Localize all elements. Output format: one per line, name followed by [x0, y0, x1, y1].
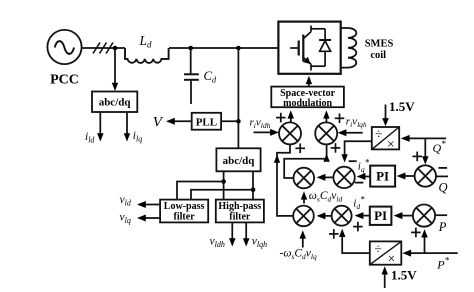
- wire PI d to SBR: [355, 212, 370, 219]
- PI controller q: [370, 166, 395, 187]
- plus sign PI d input: [353, 222, 363, 232]
- svg-text:×: ×: [388, 251, 396, 266]
- wire node A to abc/dq: [112, 48, 118, 91]
- svg-text:PI: PI: [374, 208, 387, 223]
- svg-text:coil: coil: [370, 50, 386, 61]
- plus sign Q* input: [412, 152, 422, 162]
- junction node F: [251, 187, 256, 192]
- wire abc/dq to high-pass left: [223, 171, 225, 199]
- Q input wire: [436, 175, 448, 177]
- three-phase slashes: [93, 43, 113, 54]
- svg-text:High-pass: High-pass: [218, 201, 261, 212]
- plus sign M2 top-right: [335, 114, 345, 124]
- summing junction SBL: [293, 206, 314, 227]
- svg-text:÷: ÷: [375, 127, 382, 142]
- svg-text:1.5V: 1.5V: [391, 268, 417, 283]
- abc/dq U2: [92, 92, 137, 113]
- minus omega Cd vlq input arrow: [300, 230, 307, 247]
- wire abc/dq to high-pass right: [252, 171, 254, 199]
- v_ld output arrow: [137, 201, 160, 208]
- plus sign M2 bottom input: [331, 143, 341, 153]
- svg-text:P: P: [438, 220, 447, 234]
- P* input wire: [402, 250, 457, 257]
- wire node E to low-pass: [177, 182, 224, 200]
- wire sum SML to M2 bottom: [284, 145, 330, 178]
- svg-text:abc/dq: abc/dq: [99, 96, 132, 108]
- SMES coil L2: [341, 28, 357, 68]
- V output arrow: [166, 118, 192, 125]
- wire Sq to sum SML: [317, 174, 334, 181]
- svg-text:filter: filter: [174, 212, 196, 223]
- plus sign M1 bottom input: [295, 144, 305, 154]
- 1.5V input arrow U8: [382, 105, 389, 127]
- capacitor Cd: [184, 48, 199, 104]
- PLL U3: [192, 113, 221, 130]
- svg-text:PLL: PLL: [196, 117, 217, 129]
- plus sign SBR bottom input: [329, 229, 339, 239]
- wire SQ to PI q: [397, 173, 415, 180]
- low-pass filter U6: [160, 200, 208, 223]
- svg-text:Low-pass: Low-pass: [164, 201, 205, 212]
- wire node F to low-pass: [191, 190, 253, 200]
- minus sign PI q input: [355, 182, 364, 184]
- wire SBR to SBL: [317, 212, 332, 219]
- svg-text:÷: ÷: [374, 241, 381, 256]
- wire SP to PI d: [394, 212, 413, 219]
- divider-multiplier U9: [370, 241, 402, 265]
- wire sum SBL to M1 bottom: [274, 145, 293, 216]
- wire U8 to sum Sq: [341, 141, 371, 162]
- plus sign P* input: [411, 228, 421, 238]
- r_i v_ldh input arrow: [254, 129, 279, 136]
- svg-text:abc/dq: abc/dq: [223, 155, 256, 167]
- summing junction SQ: [415, 165, 436, 186]
- svg-text:SMES: SMES: [365, 39, 394, 50]
- v_lqh output arrow: [243, 222, 250, 246]
- svg-text:×: ×: [387, 137, 395, 152]
- high-pass filter U7: [216, 200, 264, 223]
- svg-text:filter: filter: [229, 212, 251, 223]
- summing junction Sq: [333, 167, 354, 188]
- wire source to inductor: [82, 47, 125, 49]
- space-vector modulation box U4: [271, 87, 344, 109]
- label SMES coil: [365, 39, 394, 62]
- M2 output arrow to SVM: [323, 110, 329, 122]
- plus sign M1 top-left: [276, 113, 286, 123]
- minus sign Q input: [439, 167, 448, 169]
- 1.5V input arrow U9: [382, 266, 389, 288]
- wire SVM to converter: [306, 76, 312, 87]
- summing junction SBR: [332, 206, 352, 226]
- P input wire: [435, 214, 447, 216]
- svg-text:modulation: modulation: [283, 98, 332, 109]
- minus sign i_q* input: [349, 160, 357, 162]
- Q* input wire: [401, 135, 446, 142]
- r_i v_lqh input arrow: [338, 129, 363, 136]
- inductor Ld: [125, 48, 169, 63]
- PI controller d: [370, 207, 392, 225]
- divider-multiplier U8: [372, 127, 399, 152]
- junction node A: [113, 46, 118, 51]
- diode D1: [319, 29, 331, 66]
- svg-text:Q: Q: [439, 181, 448, 195]
- wire PI q to sum Sq: [357, 173, 371, 180]
- summing junction SML: [294, 168, 315, 189]
- summing junction SP: [413, 205, 435, 227]
- wire node C down to abc/dq 2: [237, 48, 239, 148]
- v_lq output arrow: [137, 215, 160, 222]
- junction node C: [236, 46, 241, 51]
- wire Q* to sum SQ: [422, 138, 429, 164]
- i_lq output arrow: [124, 112, 130, 142]
- wire U9 to SBR bottom: [339, 229, 370, 253]
- wire PLL to node D: [221, 120, 238, 122]
- omega Cd vld input arrow: [301, 191, 307, 203]
- svg-text:PCC: PCC: [50, 73, 79, 88]
- v_ldh output arrow: [229, 222, 236, 246]
- svg-text:1.5V: 1.5V: [389, 99, 415, 114]
- junction node E: [221, 179, 226, 184]
- multiplier M2: [315, 122, 337, 144]
- svg-text:PI: PI: [376, 169, 389, 184]
- abc/dq U5: [216, 148, 260, 171]
- converter box U1: [278, 22, 340, 74]
- IGBT Q1: [290, 26, 325, 71]
- junction node B: [188, 46, 193, 51]
- M1 output arrow to SVM: [288, 110, 295, 122]
- junction node D: [236, 119, 241, 124]
- multiplier M1: [279, 122, 301, 144]
- AC source PCC: [47, 30, 81, 64]
- wire P* to SP bottom: [421, 229, 428, 253]
- i_ld output arrow: [97, 112, 104, 142]
- wire inductor to converter: [169, 47, 278, 49]
